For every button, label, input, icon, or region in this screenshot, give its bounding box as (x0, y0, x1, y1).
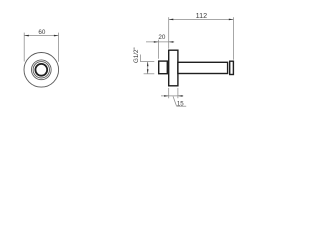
dimension 60 extension line left (23, 33, 25, 62)
dimension 60 line (24, 35, 58, 37)
svg-text:60: 60 (38, 29, 46, 36)
dimension 20 arrow right (169, 41, 174, 43)
side view end cap (230, 61, 234, 74)
svg-text:112: 112 (196, 11, 207, 20)
svg-text:G1/2": G1/2" (133, 47, 140, 63)
side view tube (178, 62, 228, 73)
G1/2 dimension extension line top (140, 61, 154, 63)
dimension 60 arrow left (24, 35, 29, 37)
front view threaded bore bold ring (35, 64, 47, 76)
G1/2 dimension extension line bottom (144, 73, 155, 75)
G1/2 label (133, 47, 140, 63)
dimension 112 extension line right (232, 17, 234, 60)
dimension 20 label (158, 34, 166, 41)
G1/2 label leader vertical (139, 55, 141, 62)
dimension 15 arrow left (164, 95, 169, 97)
dimension 15 line with outside tails (161, 95, 183, 97)
dimension 60 extension line right (58, 33, 60, 62)
dimension 20 extension line left (157, 40, 159, 59)
dimension 15 extension line left (168, 88, 170, 98)
front view hub ring middle (33, 62, 49, 78)
dimension 112 label (196, 11, 207, 20)
front view outer flange circle (24, 53, 59, 88)
dimension 112 line (169, 18, 234, 20)
front view hub ring outer (31, 60, 51, 80)
dimension 15 leader diagonal (173, 96, 177, 106)
svg-text:15: 15 (177, 100, 184, 107)
dimension 15 extension line right (177, 88, 179, 98)
dimension 20 line with outside tails (146, 41, 174, 43)
dimension 15 label (177, 100, 184, 107)
G1/2 dimension arrow down (147, 69, 149, 74)
side view flange plate (169, 50, 178, 86)
dimension 60 label (38, 29, 46, 36)
G1/2 dimension arrow up (147, 62, 149, 67)
dimension 112 extension line left (168, 17, 170, 49)
dimension 60 arrow right (54, 35, 59, 37)
svg-text:20: 20 (158, 34, 166, 41)
G1/2 dimension vertical line (147, 62, 149, 74)
dimension 15 leader landing line (177, 105, 187, 107)
dimension 112 arrow left (169, 19, 174, 21)
dimension 112 arrow right (229, 19, 234, 21)
side view nipple (159, 61, 168, 74)
dimension 15 arrow right (178, 95, 183, 97)
dimension 20 arrow left (154, 41, 159, 43)
